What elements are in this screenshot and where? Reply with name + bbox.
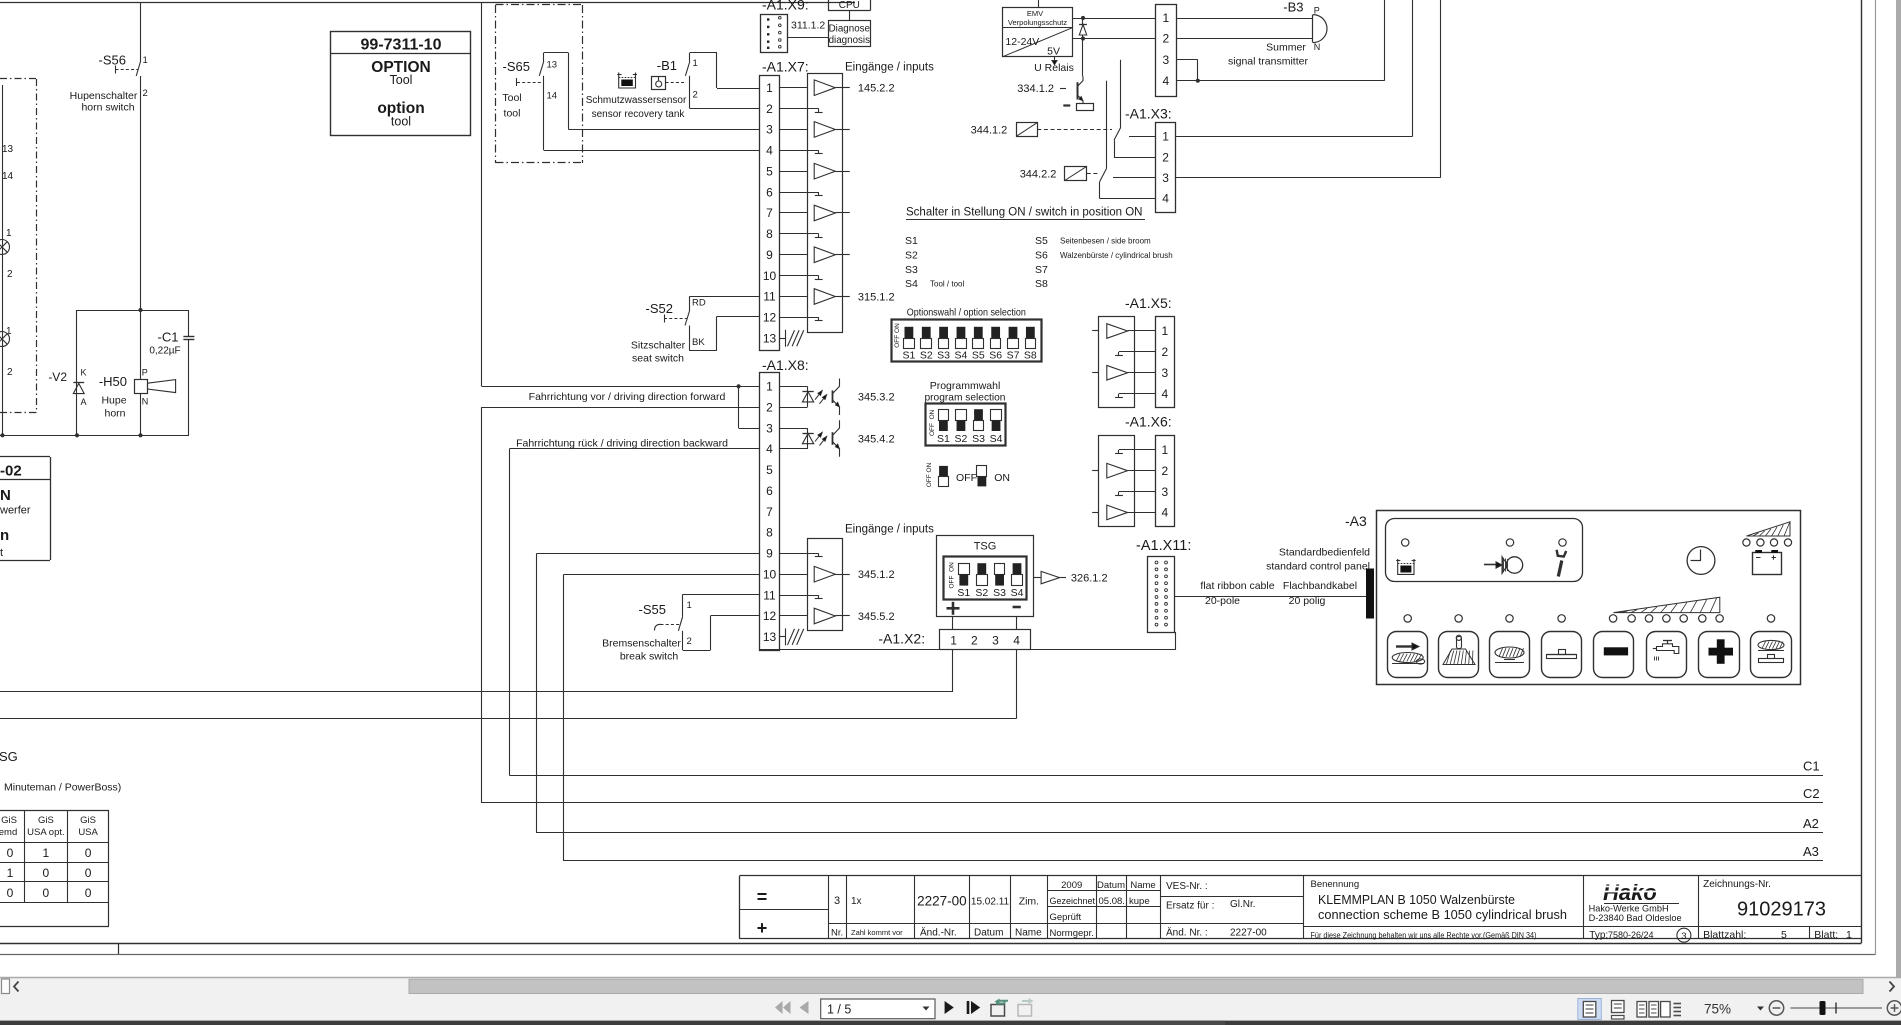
svg-text:1: 1 [1161,443,1168,457]
svg-text:4: 4 [1013,633,1020,647]
svg-text:0: 0 [43,886,50,900]
svg-text:5V: 5V [1047,46,1060,58]
svg-text:2: 2 [1162,32,1169,46]
svg-text:S2: S2 [905,250,918,262]
svg-text:Walzenbürste / cylindrical bru: Walzenbürste / cylindrical brush [1060,251,1173,260]
svg-text:20-pole: 20-pole [1205,595,1240,607]
svg-text:3: 3 [766,123,773,137]
svg-text:-A1.X7:: -A1.X7: [762,59,809,75]
svg-text:1: 1 [1162,11,1169,25]
svg-text:7: 7 [766,206,773,220]
svg-text:Schalter in Stellung ON / swit: Schalter in Stellung ON / switch in posi… [906,207,1143,219]
svg-text:Name: Name [1015,928,1042,939]
svg-text:7580-26/24: 7580-26/24 [1608,930,1654,940]
svg-text:1x: 1x [851,896,862,907]
svg-text:D-23840 Bad Oldesloe: D-23840 Bad Oldesloe [1589,913,1682,923]
svg-text:2: 2 [1161,464,1168,478]
svg-text:8: 8 [766,227,773,241]
svg-text:-S56: -S56 [99,53,126,68]
svg-text:Datum: Datum [1097,880,1125,891]
svg-text:Zeichnungs-Nr.: Zeichnungs-Nr. [1703,879,1771,890]
svg-text:Änd. Nr. :: Änd. Nr. : [1166,927,1208,939]
svg-text:344.2.2: 344.2.2 [1020,168,1057,180]
svg-text:2: 2 [7,269,13,280]
svg-text:program selection: program selection [925,393,1006,404]
svg-text:Verpolungsschutz: Verpolungsschutz [1008,18,1067,27]
svg-text:=: = [757,887,768,907]
svg-text:Typ:: Typ: [1589,930,1608,941]
svg-text:S1: S1 [905,235,918,247]
svg-text:14: 14 [547,91,558,102]
svg-text:S8: S8 [1035,278,1048,290]
svg-text:Nr.: Nr. [831,928,843,939]
svg-text:N: N [0,487,11,504]
svg-text:OFF ON: OFF ON [894,323,901,348]
svg-text:emd: emd [0,827,17,838]
svg-text:1: 1 [6,228,12,239]
svg-text:2: 2 [766,102,773,116]
svg-text:Diagnose: Diagnose [829,24,871,35]
svg-text:A3: A3 [1803,844,1819,859]
svg-text:0,22µF: 0,22µF [149,346,180,357]
svg-text:1: 1 [1161,324,1168,338]
svg-text:1: 1 [43,846,50,860]
svg-text:USA opt.: USA opt. [27,827,65,838]
svg-text:5: 5 [1781,929,1787,941]
svg-text:-A1.X8:: -A1.X8: [762,357,809,373]
svg-text:Standardbedienfeld: Standardbedienfeld [1279,547,1370,559]
svg-text:-A1.X3:: -A1.X3: [1125,106,1172,122]
svg-text:1 / 5: 1 / 5 [827,1003,851,1017]
svg-text:11: 11 [763,588,776,602]
svg-text:1: 1 [766,380,773,394]
svg-text:4: 4 [766,144,773,158]
svg-text:OFF: OFF [949,575,956,588]
svg-text:-V2: -V2 [48,370,67,384]
svg-text:Blatt:: Blatt: [1814,929,1838,941]
svg-text:12: 12 [763,311,777,325]
svg-text:-A1.X9:: -A1.X9: [762,0,809,13]
svg-text:9: 9 [766,248,773,262]
svg-text:145.2.2: 145.2.2 [858,83,895,95]
svg-text:Eingänge / inputs: Eingänge / inputs [845,62,934,74]
svg-text:345.3.2: 345.3.2 [858,392,895,404]
svg-text:kupe: kupe [1129,896,1150,907]
svg-text:Fahrrichtung vor / driving dir: Fahrrichtung vor / driving direction for… [529,391,726,403]
svg-text:C1: C1 [1803,758,1820,773]
svg-text:ON: ON [949,562,956,572]
svg-text:Sitzschalter: Sitzschalter [631,340,686,352]
svg-text:Hupe: Hupe [101,395,126,407]
svg-text:3: 3 [766,421,773,435]
svg-text:sensor recovery tank: sensor recovery tank [592,109,686,120]
svg-text:9: 9 [766,547,773,561]
svg-text:K: K [81,368,87,378]
svg-text:+: + [757,918,768,938]
svg-text:S4: S4 [1011,587,1024,599]
svg-text:-02: -02 [0,463,22,480]
svg-text:S6: S6 [989,350,1002,362]
svg-text:3: 3 [1681,931,1686,942]
svg-text:-A1.X6:: -A1.X6: [1125,414,1172,430]
svg-text:Seitenbesen / side broom: Seitenbesen / side broom [1060,237,1151,246]
svg-text:S4: S4 [990,433,1003,445]
svg-text:3: 3 [1162,53,1169,67]
svg-text:13: 13 [763,331,777,345]
svg-text:Geprüft: Geprüft [1050,912,1082,923]
svg-text:S3: S3 [937,350,950,362]
svg-text:SG: SG [0,749,18,764]
svg-text:S4: S4 [905,278,918,290]
svg-text:3: 3 [1161,485,1168,499]
svg-text:0: 0 [85,866,92,880]
svg-text:ON: ON [994,472,1010,484]
svg-text:-A1.X2:: -A1.X2: [878,630,925,646]
svg-text:P: P [142,368,148,378]
svg-text:14: 14 [2,171,14,182]
svg-text:RD: RD [692,298,706,309]
svg-text:3: 3 [834,895,840,907]
svg-text:4: 4 [766,442,773,456]
svg-text:Für diese Zeichnung behalten w: Für diese Zeichnung behalten wir uns all… [1311,931,1537,940]
svg-text:horn: horn [104,408,125,420]
svg-text:USA: USA [78,827,98,838]
svg-text:6: 6 [766,185,773,199]
svg-text:TSG: TSG [974,541,997,553]
svg-text:13: 13 [763,630,777,644]
svg-text:standard control panel: standard control panel [1266,561,1370,573]
svg-text:326.1.2: 326.1.2 [1071,573,1108,585]
svg-text:1: 1 [7,866,14,880]
svg-text:Minuteman / PowerBoss): Minuteman / PowerBoss) [4,782,121,794]
svg-text:10: 10 [763,269,777,283]
svg-text:KLEMMPLAN B 1050 Walzenbürste: KLEMMPLAN B 1050 Walzenbürste [1318,892,1515,907]
svg-text:12: 12 [763,609,777,623]
svg-text:-A1.X5:: -A1.X5: [1125,295,1172,311]
svg-text:VES-Nr. :: VES-Nr. : [1166,881,1208,892]
svg-text:Gl.Nr.: Gl.Nr. [1230,899,1256,910]
svg-text:10: 10 [763,567,777,581]
svg-text:99-7311-10: 99-7311-10 [361,37,442,54]
svg-text:05.08.: 05.08. [1099,896,1125,907]
svg-text:Optionswahl / option selection: Optionswahl / option selection [907,307,1026,319]
svg-text:OFF ON: OFF ON [926,462,933,487]
svg-text:S3: S3 [993,587,1006,599]
svg-text:345.1.2: 345.1.2 [858,569,895,581]
svg-text:Eingänge / inputs: Eingänge / inputs [845,524,934,536]
svg-text:S8: S8 [1024,350,1037,362]
svg-text:n: n [0,527,9,544]
svg-text:N: N [142,397,149,407]
svg-text:315.1.2: 315.1.2 [858,292,895,304]
svg-text:-A1.X11:: -A1.X11: [1136,538,1191,554]
svg-text:Normgepr.: Normgepr. [1050,928,1094,939]
svg-text:15.02.11: 15.02.11 [971,897,1010,908]
svg-text:20 polig: 20 polig [1289,595,1326,607]
svg-text:U Relais: U Relais [1034,62,1074,74]
svg-text:1: 1 [693,58,698,69]
svg-text:13: 13 [2,144,14,155]
svg-text:2: 2 [1161,345,1168,359]
svg-text:3: 3 [992,633,999,647]
svg-text:P: P [1314,6,1320,16]
svg-text:0: 0 [85,886,92,900]
svg-text:5: 5 [766,463,773,477]
svg-text:Benennung: Benennung [1311,879,1360,890]
svg-text:break switch: break switch [620,651,679,663]
svg-text:OFF: OFF [956,472,977,484]
svg-text:Datum: Datum [974,928,1003,939]
svg-text:12-24V: 12-24V [1005,36,1039,48]
svg-text:GiS: GiS [1,815,17,826]
svg-text:8: 8 [766,526,773,540]
svg-text:Blattzahl:: Blattzahl: [1703,929,1746,941]
svg-text:horn switch: horn switch [81,102,134,114]
svg-text:5: 5 [766,164,773,178]
svg-text:1: 1 [687,600,692,611]
svg-text:tool: tool [504,108,521,120]
svg-text:3: 3 [1161,366,1168,380]
svg-text:Tool: Tool [390,73,413,87]
svg-text:2: 2 [693,90,698,101]
svg-text:S2: S2 [955,433,968,445]
svg-text:CPU: CPU [839,0,860,11]
svg-text:345.4.2: 345.4.2 [858,434,895,446]
svg-text:344.1.2: 344.1.2 [971,125,1008,137]
svg-text:2: 2 [971,633,978,647]
svg-text:Schmutzwassersensor: Schmutzwassersensor [586,95,687,106]
svg-text:Änd.-Nr.: Änd.-Nr. [920,927,957,939]
svg-text:connection scheme B 1050 cylin: connection scheme B 1050 cylindrical bru… [1318,907,1567,922]
svg-text:4: 4 [1162,74,1169,88]
svg-text:t: t [0,547,3,559]
svg-text:diagnosis: diagnosis [829,35,870,46]
svg-text:1: 1 [950,633,957,647]
svg-text:3: 3 [1162,171,1169,185]
svg-text:1: 1 [143,55,148,66]
svg-text:S3: S3 [905,264,918,276]
svg-text:Hako: Hako [1603,880,1657,905]
svg-text:S5: S5 [1035,235,1048,247]
svg-text:seat switch: seat switch [632,353,684,365]
svg-text:-H50: -H50 [99,374,127,389]
svg-text:4: 4 [1162,192,1169,206]
svg-text:13: 13 [547,60,558,71]
svg-text:11: 11 [763,290,776,304]
svg-text:-A3: -A3 [1345,513,1367,529]
svg-text:werfer: werfer [0,505,31,517]
svg-text:S1: S1 [937,433,950,445]
svg-text:S6: S6 [1035,250,1048,262]
svg-text:2009: 2009 [1061,880,1082,891]
svg-text:0: 0 [7,846,14,860]
svg-text:91029173: 91029173 [1737,899,1826,921]
svg-text:2: 2 [1162,150,1169,164]
svg-text:1: 1 [1846,929,1852,941]
svg-text:2: 2 [143,88,148,99]
svg-text:2: 2 [7,367,13,378]
svg-text:-B3: -B3 [1283,0,1303,15]
svg-text:S1: S1 [957,587,970,599]
svg-text:S4: S4 [955,350,968,362]
svg-text:S5: S5 [972,350,985,362]
svg-text:6: 6 [766,484,773,498]
svg-text:A: A [81,397,87,407]
svg-text:Name: Name [1130,880,1155,891]
svg-text:75%: 75% [1704,1002,1731,1017]
svg-text:Tool / tool: Tool / tool [930,280,964,289]
svg-text:Flachbandkabel: Flachbandkabel [1283,580,1357,592]
svg-text:1: 1 [1162,130,1169,144]
svg-text:A2: A2 [1803,816,1819,831]
svg-text:-S55: -S55 [639,602,666,617]
svg-text:-S65: -S65 [503,59,530,74]
svg-text:flat ribbon cable: flat ribbon cable [1200,580,1274,592]
svg-text:S1: S1 [902,350,915,362]
svg-text:S2: S2 [920,350,933,362]
svg-text:Summer: Summer [1266,42,1306,54]
svg-text:0: 0 [85,846,92,860]
svg-text:0: 0 [43,866,50,880]
svg-text:S3: S3 [972,433,985,445]
svg-text:Ersatz für :: Ersatz für : [1166,901,1214,912]
svg-text:Gezeichnet: Gezeichnet [1050,896,1096,906]
svg-text:334.1.2: 334.1.2 [1017,83,1054,95]
svg-text:2: 2 [687,636,692,647]
svg-text:tool: tool [391,115,411,129]
svg-text:Bremsenschalter: Bremsenschalter [602,638,681,650]
svg-text:OFF: OFF [929,423,936,436]
svg-text:Programmwahl: Programmwahl [930,380,1001,392]
svg-text:-B1: -B1 [657,58,677,73]
svg-text:4: 4 [1161,506,1168,520]
svg-text:2227-00: 2227-00 [917,894,967,909]
svg-text:GiS: GiS [38,815,54,826]
svg-text:2: 2 [766,400,773,414]
svg-text:-S52: -S52 [646,301,673,316]
svg-text:EMV: EMV [1027,9,1043,18]
svg-text:S7: S7 [1035,264,1048,276]
svg-text:345.5.2: 345.5.2 [858,611,895,623]
svg-text:N: N [1314,42,1321,52]
svg-text:Zim.: Zim. [1019,896,1039,908]
svg-text:BK: BK [692,337,705,348]
svg-text:signal transmitter: signal transmitter [1228,56,1308,68]
svg-text:Zahl kommt vor: Zahl kommt vor [851,928,903,937]
svg-text:S7: S7 [1007,350,1020,362]
svg-text:-C1: -C1 [158,330,179,345]
svg-text:S2: S2 [975,587,988,599]
svg-text:311.1.2: 311.1.2 [791,20,825,32]
svg-text:GiS: GiS [80,815,96,826]
svg-text:Tool: Tool [502,92,521,104]
svg-text:0: 0 [7,886,14,900]
svg-text:1: 1 [766,81,773,95]
svg-text:ON: ON [929,409,936,419]
svg-text:C2: C2 [1803,786,1820,801]
svg-text:7: 7 [766,505,773,519]
svg-text:4: 4 [1161,387,1168,401]
svg-text:2227-00: 2227-00 [1230,928,1267,939]
svg-text:Fahrrichtung rück / driving di: Fahrrichtung rück / driving direction ba… [516,437,728,449]
svg-text:Hupenschalter: Hupenschalter [70,90,138,102]
